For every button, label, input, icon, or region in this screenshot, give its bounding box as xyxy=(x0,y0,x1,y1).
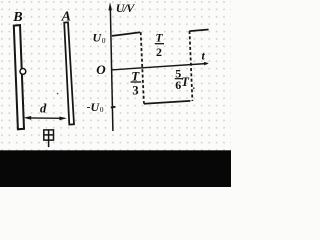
scan speck xyxy=(193,87,195,89)
label T/2 fraction xyxy=(155,33,164,60)
svg-text:T: T xyxy=(156,33,164,45)
black band at bottom xyxy=(0,150,231,187)
paper background xyxy=(0,0,231,152)
waveform segment 3 at +U0 xyxy=(189,30,208,32)
svg-text:3: 3 xyxy=(132,83,138,97)
svg-text:0: 0 xyxy=(102,36,106,45)
svg-text:U/V: U/V xyxy=(116,1,135,15)
plate B xyxy=(14,25,24,129)
t axis xyxy=(111,64,207,70)
dashed vertical at 5/6 T xyxy=(190,31,193,101)
dashed vertical at T/3 xyxy=(141,32,144,103)
plate A xyxy=(64,22,74,124)
svg-text:A: A xyxy=(61,10,71,25)
label 5/6 T fraction xyxy=(175,66,190,92)
waveform segment 2 at -U0 xyxy=(144,101,191,104)
scan speck xyxy=(57,93,59,95)
svg-text:0: 0 xyxy=(100,105,104,114)
svg-text:d: d xyxy=(40,102,47,116)
tick at -U0 on axis xyxy=(111,106,116,109)
svg-text:O: O xyxy=(96,62,106,77)
waveform segment 1 at +U0 xyxy=(112,32,140,36)
small circle charge on plate B xyxy=(20,69,26,75)
svg-text:T: T xyxy=(131,68,140,83)
d gap double arrow xyxy=(27,117,65,119)
label 甲 (drawn glyph) xyxy=(44,130,54,147)
svg-text:2: 2 xyxy=(156,45,162,59)
svg-text:B: B xyxy=(12,10,22,25)
y axis U/V xyxy=(110,6,113,131)
label T/3 fraction xyxy=(131,68,142,97)
